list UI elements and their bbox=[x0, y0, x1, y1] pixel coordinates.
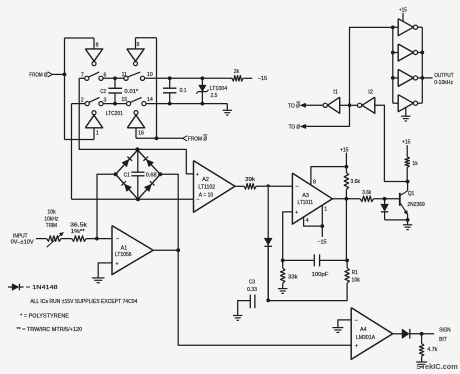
svg-text:INPUT: INPUT bbox=[13, 233, 28, 239]
switch S4 pin 14 contact bbox=[142, 102, 146, 106]
diode bridge D3 (bottom to left) bbox=[121, 181, 131, 191]
resistor 36.5k 1% bbox=[70, 222, 88, 241]
svg-text:A = 10: A = 10 bbox=[199, 192, 213, 198]
wire input lead bbox=[36, 238, 47, 240]
note polystyrene bbox=[20, 313, 69, 319]
svg-text:C1: C1 bbox=[124, 172, 130, 178]
wire C3 to ground corner bbox=[238, 301, 251, 316]
label +15 at A3 bbox=[340, 147, 349, 153]
node FROM Ø̄ junction bbox=[155, 136, 159, 140]
node C3 line / diode bbox=[266, 299, 270, 303]
svg-text:2.5: 2.5 bbox=[211, 93, 218, 99]
wire A4 - input to ground bbox=[338, 320, 351, 328]
ground at A4 - input bbox=[332, 328, 343, 333]
wire bridge edges bbox=[116, 150, 161, 199]
label SIGN BIT bbox=[439, 327, 451, 342]
wire to ground corner bbox=[226, 104, 228, 111]
wire A3 pin 1 bbox=[321, 205, 323, 226]
resistor R1 10k bbox=[345, 268, 360, 284]
svg-text:A3: A3 bbox=[302, 193, 309, 199]
wire 100pF line bbox=[283, 259, 314, 261]
svg-text:C3: C3 bbox=[249, 280, 255, 286]
note diode = 1N4148 bbox=[8, 284, 58, 291]
node bridge left bbox=[114, 172, 118, 176]
svg-text:1k: 1k bbox=[412, 161, 418, 167]
svg-text:0.33: 0.33 bbox=[247, 287, 257, 293]
svg-text:10k: 10k bbox=[47, 210, 56, 216]
node A1 output bbox=[176, 248, 180, 252]
switch S2 blade bbox=[128, 72, 141, 77]
svg-text:A1: A1 bbox=[121, 245, 128, 251]
svg-text:1: 1 bbox=[96, 131, 99, 137]
svg-text:C2: C2 bbox=[100, 89, 106, 95]
svg-text:8: 8 bbox=[313, 180, 316, 186]
node 0.1 bottom bbox=[168, 102, 172, 106]
resistor 39k bbox=[244, 177, 256, 189]
resistor 2k bbox=[232, 69, 243, 81]
label -15 rail bbox=[258, 76, 268, 82]
resistor 4.7k bbox=[419, 334, 437, 362]
svg-text:100pF: 100pF bbox=[312, 272, 329, 278]
svg-text:LM301A: LM301A bbox=[356, 335, 376, 341]
node bridge top bbox=[135, 147, 139, 151]
label pin 11 bbox=[122, 72, 127, 78]
svg-text:LT1056: LT1056 bbox=[115, 252, 132, 258]
svg-text:16: 16 bbox=[138, 131, 144, 137]
svg-text:LTC201: LTC201 bbox=[106, 111, 123, 117]
wire pin7 left leg bbox=[79, 77, 85, 79]
wire +15 to 1k bbox=[406, 145, 408, 157]
svg-text:R1: R1 bbox=[352, 270, 358, 276]
node 0.1 top bbox=[168, 76, 172, 80]
svg-text:TRIM: TRIM bbox=[46, 223, 57, 229]
svg-text:ALL ICs RUN ±15V SUPPLIES EXCE: ALL ICs RUN ±15V SUPPLIES EXCEPT 74C04 bbox=[30, 299, 137, 305]
arrow TO Ø̄ bbox=[300, 103, 305, 107]
node output bus row2 bbox=[420, 51, 424, 55]
svg-text:+: + bbox=[196, 172, 199, 178]
node Q1 base / clamp diode bbox=[383, 197, 387, 201]
wire I1/I2 node to inverter stack bbox=[350, 27, 393, 105]
label LTC201 bbox=[106, 111, 123, 117]
wire pin10 to -15 rail bbox=[145, 77, 233, 79]
wire bridge top to A2 + input bbox=[137, 149, 193, 174]
svg-text:7: 7 bbox=[81, 72, 84, 78]
wire Ø̄ vertical bus bbox=[156, 38, 158, 139]
node output bus row3 bbox=[420, 76, 424, 80]
svg-text:+: + bbox=[115, 261, 118, 267]
inverter I1 bbox=[323, 90, 340, 114]
label OUTPUT 0-10kHz bbox=[434, 73, 454, 86]
wire pin14 to ground corner bbox=[146, 103, 227, 105]
wire output node down to R1 bbox=[345, 199, 348, 268]
ground at Q1 bbox=[403, 225, 412, 230]
switch S1 pin 6 contact bbox=[99, 76, 103, 80]
label pin 10 bbox=[147, 72, 153, 78]
svg-text:−15: −15 bbox=[317, 239, 327, 245]
svg-text:33k: 33k bbox=[288, 274, 298, 280]
svg-text:0V–±10V: 0V–±10V bbox=[11, 240, 34, 246]
wire pins to -15 bbox=[321, 226, 323, 237]
svg-text:39k: 39k bbox=[245, 177, 255, 183]
wire A4 output bbox=[393, 333, 402, 335]
wire I1/I2 node to TO Ø bbox=[301, 105, 349, 126]
svg-text:0.68: 0.68 bbox=[146, 172, 157, 178]
potentiometer 10k 10kHz TRIM bbox=[44, 210, 63, 248]
svg-text:FROM Ø: FROM Ø bbox=[29, 73, 47, 79]
svg-text:2: 2 bbox=[81, 98, 84, 104]
svg-text:1%**: 1%** bbox=[71, 229, 85, 235]
inverter 1 (switch driver) bbox=[85, 111, 102, 137]
switch S4 blade bbox=[130, 97, 141, 102]
label pin 3 bbox=[103, 98, 106, 104]
svg-text:−: − bbox=[355, 318, 358, 324]
svg-text:A2: A2 bbox=[202, 177, 209, 183]
wire 1k to collector bbox=[406, 167, 408, 181]
label pin 14 bbox=[147, 97, 153, 103]
capacitor C2 0.01 bbox=[100, 78, 138, 103]
capacitor C1 0.68 in bridge bbox=[124, 150, 157, 199]
switch S3 pin 3 contact bbox=[99, 102, 103, 106]
svg-text:OUTPUT: OUTPUT bbox=[434, 73, 454, 79]
diode D5 (to C3 node) bbox=[264, 187, 272, 301]
wire A3 pin 4 bbox=[304, 217, 323, 226]
inverter 9 (switch driver) bbox=[127, 42, 144, 66]
svg-text:I2: I2 bbox=[368, 90, 373, 96]
svg-text:10kHz: 10kHz bbox=[44, 216, 58, 222]
comparator A3 LT1011 bbox=[292, 173, 332, 224]
wire 74C04 input bus bbox=[392, 27, 394, 103]
wire +15 stem to inverter stack bbox=[402, 13, 404, 22]
wire to inverter 8 input bbox=[65, 38, 95, 49]
node pin8/+15 bbox=[345, 165, 349, 169]
label pin 2 bbox=[81, 98, 84, 104]
wire 36.5k to A1 bbox=[86, 238, 112, 240]
svg-text:14: 14 bbox=[147, 97, 153, 103]
switch S3 blade bbox=[89, 97, 100, 102]
node A1 summing junction bbox=[95, 237, 99, 241]
svg-text:3: 3 bbox=[103, 98, 106, 104]
label pin 7 bbox=[81, 72, 84, 78]
wire A2 output bbox=[235, 185, 244, 187]
wire A1 output bbox=[153, 249, 178, 251]
label pin 4 of A3 bbox=[306, 218, 309, 224]
label TO Ø̄ bbox=[288, 102, 300, 110]
wire 3.6k to Q1 base bbox=[373, 198, 399, 200]
svg-text:0-10kHz: 0-10kHz bbox=[434, 80, 453, 86]
wire to inverter 1 input bbox=[65, 128, 95, 140]
svg-text:* = POLYSTYRENE: * = POLYSTYRENE bbox=[20, 313, 69, 319]
wire +15 stem bbox=[345, 153, 347, 173]
svg-text:8: 8 bbox=[96, 43, 99, 49]
node 39k output bbox=[266, 184, 270, 188]
diode bridge D4 (bottom to right) bbox=[145, 181, 155, 191]
node FROM Ø junction bbox=[63, 73, 67, 77]
op-amp A4 LM301A bbox=[351, 308, 393, 360]
ground near LT1004 bbox=[223, 110, 232, 115]
svg-text:LT1004: LT1004 bbox=[210, 86, 228, 92]
svg-text:+15: +15 bbox=[340, 147, 349, 153]
diode D6 base clamp bbox=[381, 199, 388, 220]
wire bridge bottom row to A2 - input bbox=[72, 198, 194, 200]
inverter 74C04 row 1 bbox=[393, 19, 423, 36]
note resistor type bbox=[17, 327, 83, 333]
diode D7 at A4 output bbox=[402, 329, 434, 339]
wire A1 output down to sign comparator bbox=[178, 250, 351, 345]
switch S2 pin 10 contact bbox=[140, 76, 144, 80]
svg-text:+: + bbox=[355, 344, 358, 350]
node A3 output bbox=[345, 197, 349, 201]
note supplies bbox=[30, 299, 137, 305]
node input bus row2 bbox=[391, 51, 395, 55]
wire A1 + input to ground bbox=[98, 263, 112, 278]
svg-text:6: 6 bbox=[103, 72, 106, 78]
node LT1004 top bbox=[201, 76, 205, 80]
wire R1 to C3 line bbox=[268, 283, 347, 301]
svg-text:2k: 2k bbox=[234, 69, 240, 75]
switch S2 pin 11 contact bbox=[124, 76, 128, 80]
svg-text:0.01*: 0.01* bbox=[124, 89, 138, 95]
node 100pF / R1 bbox=[345, 259, 349, 263]
wire FROM Ø vertical bus bbox=[64, 38, 66, 140]
FROM Ø input label bbox=[29, 72, 52, 79]
label +15 at 1k bbox=[402, 140, 411, 146]
svg-text:−15: −15 bbox=[258, 76, 268, 82]
inverter 74C04 row 4 bbox=[393, 95, 423, 112]
svg-text:−: − bbox=[116, 236, 119, 242]
label pin 8 of A3 bbox=[313, 180, 316, 186]
wire I1 input bbox=[340, 104, 348, 106]
wire 39k to A3 - input bbox=[256, 185, 292, 187]
wire pin2 left leg bbox=[72, 103, 86, 105]
wire A3 output bbox=[332, 198, 360, 200]
resistor 1k bbox=[405, 157, 418, 168]
svg-text:15: 15 bbox=[121, 97, 127, 103]
switch S1 blade bbox=[88, 72, 99, 77]
node C2 top bbox=[113, 76, 117, 80]
wire clamp to emitter bbox=[385, 219, 408, 221]
node A3 + / 33k / 100pF bbox=[281, 259, 285, 263]
node LT1004 bottom bbox=[201, 102, 205, 106]
resistor 33k to ground bbox=[281, 260, 299, 288]
wire Q1 emitter to ground bbox=[407, 220, 409, 225]
node bridge bottom bbox=[136, 197, 140, 201]
ground at A1 + input bbox=[92, 278, 105, 283]
label pin 6 bbox=[103, 72, 106, 78]
diode bridge D1 (left to top) bbox=[122, 157, 132, 167]
label TO Ø bbox=[289, 125, 300, 131]
wire inverter 16 input bbox=[136, 128, 157, 139]
svg-text:+: + bbox=[295, 210, 298, 216]
node I1/I2 bbox=[348, 103, 352, 107]
svg-text:9: 9 bbox=[136, 42, 139, 48]
label -15 at A3 bbox=[317, 239, 327, 245]
wire A3 + input bbox=[283, 212, 293, 261]
svg-text:2N2369: 2N2369 bbox=[407, 202, 425, 208]
wire inverter 9 input from Ø̄ bus bbox=[136, 38, 157, 49]
ground below 74C04 bbox=[401, 116, 410, 121]
svg-text:LT1011: LT1011 bbox=[298, 200, 314, 206]
svg-text:10k: 10k bbox=[352, 277, 361, 283]
wire 2k to -15 bbox=[243, 77, 252, 79]
inverter 74C04 row 2 bbox=[393, 44, 423, 61]
node C2 bottom bbox=[113, 102, 117, 106]
inverter 74C04 row 3 bbox=[393, 69, 423, 86]
svg-text:BIT: BIT bbox=[439, 337, 447, 343]
label pin 15 bbox=[121, 97, 127, 103]
ground below 33k bbox=[278, 289, 287, 294]
wire 39k node down to C3 line bbox=[267, 186, 269, 300]
wire bridge left to A1 - node bbox=[97, 174, 116, 238]
svg-text:TO Ø: TO Ø bbox=[288, 104, 300, 110]
wire FROM Ø to node bbox=[52, 73, 64, 75]
svg-text:−: − bbox=[295, 184, 298, 190]
node input bus row3 bbox=[391, 76, 395, 80]
wire pin3 to pin15 bbox=[103, 103, 127, 105]
svg-text:TO Ø: TO Ø bbox=[289, 125, 300, 131]
svg-text:10: 10 bbox=[147, 72, 153, 78]
svg-text:3.6k: 3.6k bbox=[350, 179, 360, 185]
svg-text:LT1102: LT1102 bbox=[198, 184, 215, 190]
node bridge right bbox=[158, 172, 162, 176]
wire TO Ø̄ lead bbox=[305, 104, 323, 106]
inverter 16 (switch driver) bbox=[127, 111, 144, 137]
wire output lead bbox=[422, 77, 432, 79]
switch S4 pin 15 contact bbox=[127, 102, 131, 106]
wire collector to I2 input bbox=[375, 105, 408, 181]
svg-text:I1: I1 bbox=[333, 90, 338, 96]
svg-text:36.5k: 36.5k bbox=[70, 222, 88, 228]
FROM Ø̄ input label bbox=[183, 135, 208, 143]
capacitor C3 0.33 bbox=[247, 280, 257, 309]
diode LT1004 2.5 reference bbox=[196, 78, 227, 103]
node Q1 emitter bbox=[406, 218, 410, 222]
node sign bit bbox=[420, 332, 424, 336]
svg-text:A4: A4 bbox=[360, 327, 367, 333]
label pin 1 of A3 bbox=[324, 207, 327, 213]
svg-text:1: 1 bbox=[324, 207, 327, 213]
transistor Q1 2N2369 bbox=[400, 182, 425, 220]
wire FROM Ø̄ lead bbox=[157, 137, 183, 139]
capacitor 100pF bbox=[312, 254, 348, 278]
resistor 3.6k pullup bbox=[344, 173, 360, 190]
inverter 8 (switch driver) bbox=[85, 43, 102, 66]
label +15 at 74C04 bbox=[399, 8, 407, 14]
svg-text:STekIC.com: STekIC.com bbox=[416, 362, 458, 371]
wire pin7 to bridge top bbox=[79, 78, 137, 149]
arrow TO Ø bbox=[301, 124, 306, 128]
resistor 3.6k series bbox=[360, 190, 373, 202]
switch S3 pin 2 contact bbox=[85, 102, 89, 106]
svg-text:** = TRW/IRC MTR/5/+120: ** = TRW/IRC MTR/5/+120 bbox=[17, 327, 83, 333]
label INPUT bbox=[11, 233, 34, 245]
svg-text:4.7k: 4.7k bbox=[427, 347, 437, 353]
diode bridge D2 (right to top) bbox=[143, 157, 153, 167]
op-amp A1 LT1056 bbox=[112, 226, 153, 275]
svg-text:+15: +15 bbox=[402, 140, 411, 146]
node Q1 collector bbox=[406, 180, 410, 184]
svg-text:= 1N4148: = 1N4148 bbox=[26, 285, 58, 291]
switch S1 pin 7 contact bbox=[85, 76, 89, 80]
op-amp A2 LT1102 A=10 bbox=[194, 161, 236, 213]
inverter I2 bbox=[352, 90, 375, 114]
node pin1/pin4 bbox=[320, 224, 324, 228]
ground at C3 bbox=[233, 316, 242, 321]
node input bus row1 bbox=[391, 26, 395, 30]
wire bridge right to A1 output bbox=[160, 174, 178, 250]
svg-text:Q1: Q1 bbox=[408, 191, 415, 197]
svg-text:SIGN: SIGN bbox=[439, 327, 451, 333]
wire 74C04 output bus bbox=[421, 27, 423, 103]
svg-text:0.1: 0.1 bbox=[180, 88, 187, 94]
wire pin2 to bridge bottom line bbox=[71, 104, 73, 200]
svg-text:FROM Ø: FROM Ø bbox=[188, 137, 207, 143]
wire pin6 to pin11 bbox=[103, 77, 124, 79]
svg-text:3.6k: 3.6k bbox=[362, 190, 371, 196]
wire pot to 36.5k bbox=[61, 238, 72, 240]
svg-text:4: 4 bbox=[306, 218, 309, 224]
ground below 4.7k bbox=[416, 362, 427, 367]
wire pullup to output bbox=[345, 190, 347, 199]
capacitor 0.1 bbox=[163, 78, 187, 103]
watermark bbox=[416, 362, 458, 371]
wire ground stem row4 bbox=[405, 108, 407, 117]
wire A3 pin 8 to +15 bbox=[311, 167, 347, 185]
